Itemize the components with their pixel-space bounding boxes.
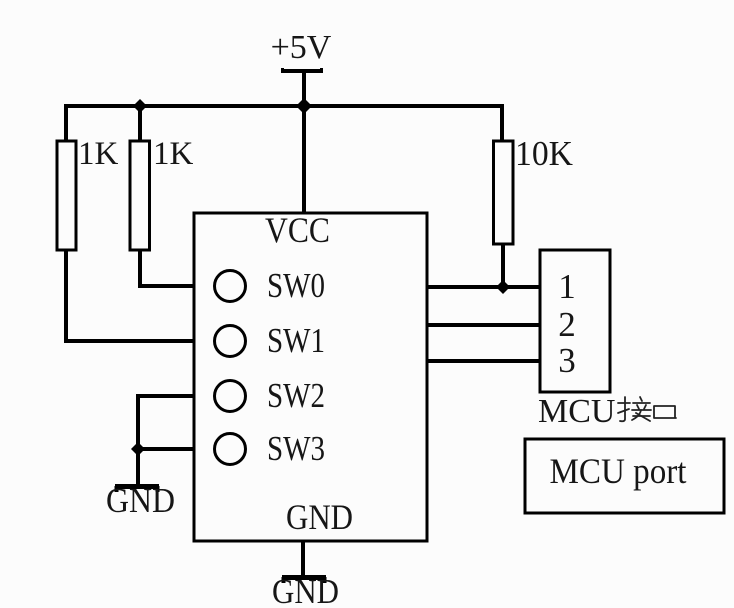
- svg-text:SW2: SW2: [267, 376, 325, 415]
- svg-text:3: 3: [558, 341, 576, 380]
- svg-text:1K: 1K: [153, 136, 194, 172]
- svg-text:+5V: +5V: [271, 29, 332, 66]
- svg-text:SW3: SW3: [267, 429, 325, 468]
- svg-text:GND: GND: [272, 572, 339, 608]
- svg-text:GND: GND: [286, 497, 353, 537]
- svg-text:MCU: MCU: [538, 393, 615, 430]
- svg-text:GND: GND: [106, 481, 175, 520]
- svg-text:VCC: VCC: [265, 210, 330, 250]
- svg-text:10K: 10K: [515, 134, 573, 173]
- svg-text:1: 1: [558, 267, 576, 306]
- svg-text:SW1: SW1: [267, 321, 325, 360]
- svg-text:2: 2: [558, 305, 576, 344]
- svg-text:1K: 1K: [78, 136, 119, 172]
- svg-text:SW0: SW0: [267, 266, 325, 305]
- svg-text:MCU port: MCU port: [550, 451, 687, 491]
